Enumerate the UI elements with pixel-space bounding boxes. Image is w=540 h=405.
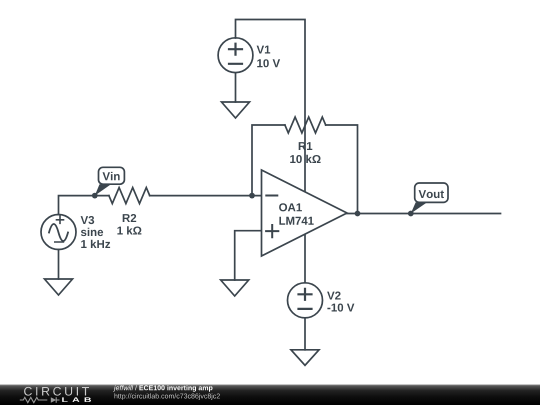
label R2 value [117,226,141,234]
op-amp inverting input symbol [266,195,277,197]
label OA1 model [279,217,313,225]
node flag Vin box [99,167,125,184]
resistor R2 [109,188,150,204]
wire V1 top to op-amp V+ supply [236,20,306,192]
wire V3 bottom to ground [58,250,60,280]
label OA1 name [279,203,302,211]
label V3 type [81,228,103,236]
label V2 value [327,304,354,312]
op-amp non-inverting input symbol [266,225,278,237]
wire feedback left branch [252,125,285,196]
footer title text [113,385,212,392]
voltage source V2 circle [288,283,323,318]
V2 polarity marks [299,289,312,309]
wire R1 right to output node [326,125,358,214]
junction dot at Vin node [92,193,98,199]
junction dot at output node [355,211,361,217]
label R1 value [290,155,320,163]
label V3 name [81,216,95,224]
label V3 freq [81,240,110,248]
logo wordmark LAB [62,397,91,402]
junction dot at inverting input node [249,193,255,199]
label V1 name [257,46,271,54]
voltage source V3 circle [41,215,76,250]
wire V2 bottom to ground [304,318,306,350]
op-amp OA1 triangle [262,170,348,256]
wire op-amp V- supply to V2 [304,234,306,282]
V3 polarity marks [55,216,64,242]
label V2 name [327,292,341,300]
wire V1 bottom to ground [235,73,237,102]
flag label Vin text [103,172,120,180]
node flag Vin pointer [95,184,111,195]
V1 polarity marks [229,44,242,64]
V3 sine symbol [49,224,68,241]
logo wordmark CIRCUIT [24,387,89,396]
wire non-inverting input to ground [235,231,262,280]
label V1 value [257,59,280,67]
footer bar [0,385,540,405]
label R1 name [299,142,313,150]
wire V3 to R2 input [59,196,109,215]
footer url text [115,393,220,400]
voltage source V1 circle [218,38,253,73]
ground under V1 [222,102,250,118]
flag label Vout text [419,190,444,198]
ground at non-inverting input [221,280,249,296]
node flag Vout box [415,183,448,202]
logo circuit glyph [20,397,60,403]
ground under V3 [45,279,73,295]
node flag Vout pointer [411,202,427,213]
ground under V2 [291,350,319,366]
wire R2 to inverting input [150,195,262,197]
junction dot at Vout node [408,211,414,217]
resistor R1 [285,117,326,133]
wire output [347,213,501,215]
label R2 name [123,214,137,222]
